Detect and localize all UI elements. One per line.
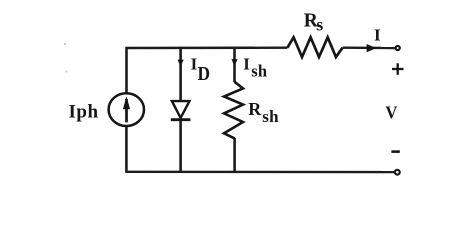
diode D triangle	[172, 101, 190, 118]
resistor Rs zigzag	[287, 37, 342, 57]
wire below diode	[179, 120, 182, 173]
resistor Rsh zigzag	[224, 82, 243, 139]
svg-text:I: I	[243, 54, 250, 73]
svg-text:s: s	[316, 15, 323, 35]
svg-text:sh: sh	[251, 62, 267, 81]
node terminal - (bottom right)	[395, 170, 400, 175]
current I arrow on top wire	[367, 44, 377, 52]
scan speck 1	[64, 43, 66, 45]
wire from Rs to terminal	[343, 47, 395, 50]
wire left branch vertical (current source branch)	[125, 47, 128, 94]
diode D cathode bar	[171, 118, 191, 121]
label +	[392, 63, 404, 75]
current Ish arrow (down)	[231, 59, 237, 66]
svg-text:D: D	[198, 63, 211, 85]
current source Iph circle	[109, 93, 144, 126]
current source arrow (up)	[125, 99, 128, 122]
wire below current source	[125, 126, 128, 173]
svg-text:Iph: Iph	[69, 102, 99, 123]
label -	[391, 150, 399, 153]
svg-text:sh: sh	[262, 107, 279, 126]
wire bottom horizontal	[126, 171, 394, 174]
wire Rsh branch vertical (top)	[233, 47, 236, 82]
wire below Rsh	[233, 138, 236, 173]
wire diode branch vertical	[179, 47, 182, 102]
svg-text:V: V	[385, 102, 397, 122]
node terminal + (top right)	[396, 46, 400, 50]
scan speck 2	[66, 71, 68, 73]
svg-text:I: I	[374, 25, 381, 44]
current source arrowhead	[123, 96, 130, 109]
svg-text:R: R	[248, 99, 262, 119]
wire top horizontal (left segment)	[127, 47, 288, 50]
current ID arrow (down)	[178, 60, 184, 67]
